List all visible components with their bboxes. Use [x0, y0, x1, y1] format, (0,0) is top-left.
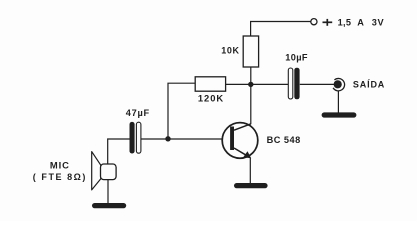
svg-text:SAÍDA: SAÍDA	[353, 80, 385, 90]
svg-text:3V: 3V	[372, 17, 385, 27]
svg-text:1,5: 1,5	[338, 17, 352, 27]
svg-text:A: A	[357, 17, 364, 27]
svg-text:BC 548: BC 548	[267, 135, 301, 145]
svg-text:47µF: 47µF	[126, 108, 150, 118]
svg-text:10K: 10K	[221, 46, 239, 56]
svg-text:120K: 120K	[198, 93, 224, 104]
svg-text:MIC: MIC	[50, 160, 70, 171]
svg-text:( FTE 8Ω): ( FTE 8Ω)	[33, 172, 87, 182]
svg-text:10µF: 10µF	[285, 53, 308, 63]
